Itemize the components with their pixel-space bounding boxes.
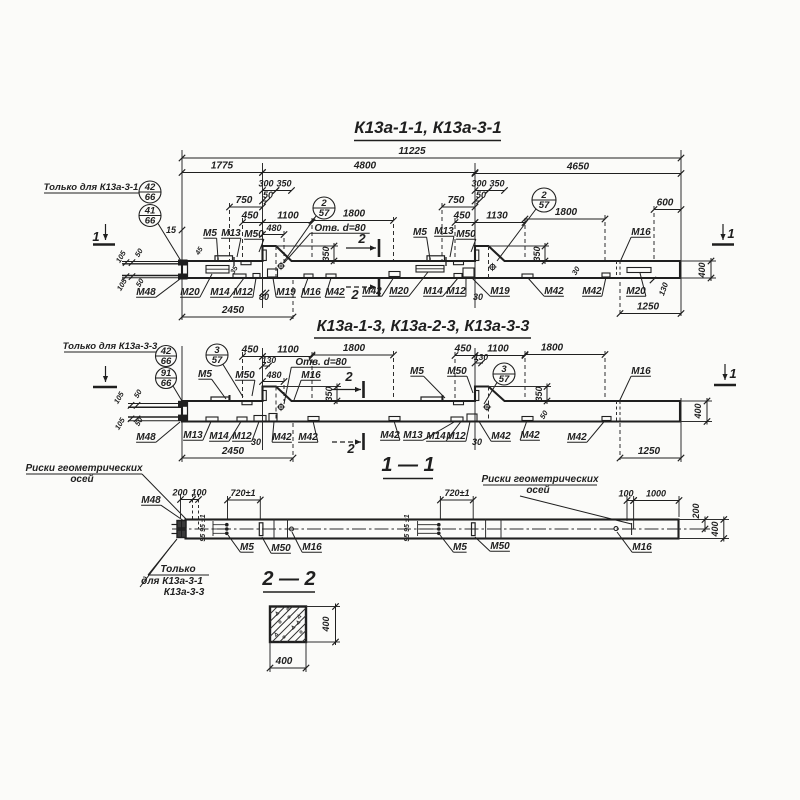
svg-text:Риски геометрических: Риски геометрических (481, 474, 598, 485)
svg-text:М42: М42 (544, 286, 564, 297)
bolt M16 dot group 1 section 1-1 (290, 527, 294, 531)
svg-text:3: 3 (214, 345, 220, 356)
svg-text:200: 200 (691, 503, 701, 519)
joint line no.1 group 1 section 1-1 (273, 520, 275, 539)
dimension 1775 (179, 161, 266, 176)
svg-text:480: 480 (265, 223, 281, 233)
extension line console 2 left edge top view (474, 163, 476, 308)
dimension 480 console 1 (259, 223, 287, 238)
anchor tick M13 console 2 top view (445, 257, 447, 266)
position bubble 3/57 console 2 middle view (493, 363, 515, 385)
extension line 1100 end console 1 (311, 218, 313, 261)
label M13 above console 2 (434, 226, 454, 257)
svg-text:1 — 1: 1 — 1 (381, 454, 434, 476)
svg-text:М16: М16 (302, 542, 322, 553)
hidden line M16 sleeve right edge middle view (619, 401, 621, 422)
vertical dimension 350 console 1 middle view (324, 383, 340, 404)
opening d80 console 2 middle view (483, 403, 491, 411)
extension for 30 below console 2 (474, 278, 476, 302)
embedded plate M20 no.3 (627, 268, 651, 273)
section title 2 - 2 (261, 568, 315, 592)
embedded plate M14 no.1 (233, 274, 246, 278)
dimension 1800 between consoles middle view (309, 343, 397, 358)
svg-text:30: 30 (473, 292, 483, 302)
svg-text:М42: М42 (491, 431, 511, 442)
svg-text:М42: М42 (272, 432, 292, 443)
extension 720 no.1 start (227, 496, 229, 520)
dimension 4800 (259, 161, 478, 176)
svg-text:130: 130 (474, 352, 488, 362)
extension right end middle view (680, 398, 682, 462)
label M19 below top view no.1 (273, 278, 296, 298)
label M50 above console 2 (456, 229, 476, 252)
svg-text:95 95 ±1: 95 95 ±1 (200, 514, 207, 541)
svg-text:М20: М20 (626, 286, 646, 297)
svg-text:осей: осей (526, 485, 549, 496)
embedded plate M16 no.1 (304, 274, 313, 278)
opening d80 in console 2 (488, 263, 496, 271)
vertical dimension 350 console 2 middle view (534, 383, 550, 404)
svg-text:300: 300 (471, 179, 486, 189)
svg-text:2: 2 (344, 369, 353, 384)
svg-text:М42: М42 (298, 432, 318, 443)
anchor rods M48 upper pair top view (122, 259, 182, 265)
embedded plate M12 no.1 (253, 274, 260, 278)
svg-text:2450: 2450 (221, 305, 245, 316)
label M48 section 1-1 (141, 495, 184, 521)
svg-text:2 — 2: 2 — 2 (261, 568, 315, 590)
embedded plate M42 no.4 (602, 273, 610, 277)
opening d80 console 1 middle view (277, 403, 285, 411)
column body section 1-1 (186, 520, 679, 539)
label M16 group 3 section 1-1 (617, 532, 652, 553)
embedded plate M42 console 1 middle view (269, 414, 277, 422)
svg-text:4800: 4800 (353, 161, 377, 172)
svg-text:М13: М13 (221, 228, 241, 239)
label M5 above console 1 (203, 228, 218, 259)
plate M19 on console 1 face (263, 250, 267, 261)
plate M12 on console 1 face middle view (263, 391, 267, 401)
dimension 300 console 1 (258, 179, 279, 194)
svg-text:1100: 1100 (277, 211, 299, 222)
svg-text:М13: М13 (403, 430, 423, 441)
extension from console 1 top to 350 dim (276, 245, 338, 247)
position bubble 2/57 console 2 (532, 188, 556, 212)
label M19 below top view no.2 (472, 278, 510, 297)
anchor rods M48 lower pair top view (122, 273, 182, 279)
position bubble 41/66 for K13a-3-1 (139, 205, 161, 227)
svg-text:200: 200 (171, 488, 187, 498)
anchor tick M5 console 1 middle view (229, 395, 231, 402)
svg-text:100: 100 (618, 489, 633, 499)
extension line 480 end console 1 (283, 231, 285, 261)
plate M50 under top edge console 2 middle view (454, 402, 464, 405)
extension top edge to 400 dim section 1-1 (679, 519, 730, 521)
svg-text:М42: М42 (582, 286, 602, 297)
svg-text:М16: М16 (301, 370, 321, 381)
svg-text:Только: Только (160, 564, 195, 575)
extension 1250 left end middle view (619, 423, 621, 460)
svg-text:57: 57 (539, 200, 550, 211)
extension bottom left corner section 2-2 (269, 642, 271, 672)
label M42 below top view no.3 (528, 278, 564, 297)
extension for 30 middle view console 1 (262, 422, 264, 450)
embedded plate M42 middle view no.2 (308, 417, 319, 421)
svg-text:М19: М19 (490, 286, 510, 297)
extension bottom right corner to 400 dim (680, 277, 716, 279)
hidden line M16 sleeve left edge middle view (616, 401, 618, 422)
anchor rods M48 lower pair middle view (128, 416, 182, 422)
extension 100 right end section 1-1 (633, 496, 635, 529)
svg-text:41: 41 (144, 205, 156, 216)
section mark 2 upper arrow top view (346, 231, 379, 257)
dimension 130 console 1 middle view (259, 355, 276, 369)
square cross-section 2-2 outline (270, 607, 306, 643)
svg-text:450: 450 (454, 344, 472, 355)
extension line right end of top view (680, 150, 682, 316)
embedded channel M20 no.2 (416, 266, 444, 273)
embedded plate M42 no.2 (389, 272, 400, 277)
left end plate line middle view (187, 401, 189, 422)
joint line no.1 group 2 section 1-1 (485, 520, 487, 539)
label M12 below middle view no.2 (446, 422, 470, 443)
label M14 below top view no.2 (423, 278, 458, 297)
extension 1100 end console 2 middle view (524, 351, 526, 401)
svg-text:400: 400 (710, 521, 720, 537)
svg-text:350: 350 (321, 246, 331, 261)
svg-text:1100: 1100 (277, 345, 299, 356)
label opening Otv d=80 console 1 (284, 223, 370, 263)
left end plate line top view (187, 261, 189, 278)
leader from bubble 3/57 console 1 to plate M50 (223, 365, 243, 398)
concrete hatching in section 2-2 (270, 607, 306, 643)
dimension 50 console 2 (472, 190, 486, 204)
hidden line console 2 corner middle view (488, 387, 490, 422)
svg-text:350: 350 (324, 386, 334, 401)
extension line left end of top view (181, 150, 183, 320)
label M50 group 2 section 1-1 (475, 537, 510, 552)
dimension 200 section 1-1 (171, 488, 195, 503)
svg-text:М14: М14 (209, 431, 229, 442)
hidden line M16 sleeve left edge top view (616, 261, 618, 278)
dimension 100 right section 1-1 (618, 489, 636, 504)
joint line no.2 group 1 section 1-1 (287, 520, 289, 539)
dimension 1100 console 1 (259, 211, 315, 226)
label M13 above console 1 (221, 228, 241, 257)
svg-text:М12: М12 (446, 286, 466, 297)
extension 2450 right end middle view (292, 423, 294, 462)
title of top elevation view K13a-1-1, K13a-3-1 (354, 118, 502, 141)
anchor plate M5 on top edge console 2 (427, 256, 445, 261)
svg-text:57: 57 (499, 374, 510, 385)
position bubble 91/66 middle view (156, 368, 177, 390)
vertical dimension 400 section 2-2 (321, 603, 339, 645)
svg-text:720±1: 720±1 (445, 488, 470, 498)
dimension 450 console 1 middle view (239, 345, 265, 360)
extension for 30 middle view console 2 (474, 422, 476, 448)
svg-text:480: 480 (265, 370, 281, 380)
label M48 below middle view (136, 422, 180, 443)
embedded plate M42 middle view no.4 (522, 417, 533, 421)
position bubble 3/57 console 1 middle view (206, 344, 228, 366)
section mark 1 right of middle view (714, 364, 737, 385)
extension line for 750 left tick console 1 (229, 203, 231, 261)
svg-text:80: 80 (259, 292, 269, 302)
vertical dimension 200 section 1-1 (691, 503, 708, 532)
extension line 600 start (653, 206, 655, 261)
label M12 below middle view no.1 (232, 422, 259, 443)
embedded plate M13 middle view no.2 (451, 417, 463, 421)
extension 100 right start section 1-1 (626, 496, 628, 521)
extension line 1800 right end (604, 215, 606, 261)
svg-text:15: 15 (166, 225, 177, 235)
extension 1100 end middle view (311, 352, 313, 401)
note riski geometricheskikh osei right (481, 474, 631, 524)
section mark 2 lower arrow top view (346, 278, 379, 302)
extension 720 no.2 end (472, 496, 474, 520)
dimension 1250 below top view right (617, 302, 684, 317)
embedded plate M42 no.1 (326, 274, 336, 278)
dimension 400 below section 2-2 (267, 656, 309, 671)
dimension 130 console 2 middle view (472, 352, 489, 366)
svg-text:450: 450 (453, 211, 471, 222)
tick for 15 mark (179, 227, 185, 233)
svg-text:М12: М12 (233, 287, 253, 298)
section mark 1 left of top view (92, 224, 115, 245)
dimension 1130 console 2 (472, 211, 528, 226)
section mark 1 right of top view (712, 224, 735, 245)
svg-text:М50: М50 (490, 541, 510, 552)
label M13 below middle view no.1 (183, 422, 211, 442)
note text Tolko dlya K13a-3-3 (63, 341, 158, 352)
svg-text:М13: М13 (183, 430, 203, 441)
anchor tick M5 console 2 top view (429, 258, 431, 262)
svg-text:95 95 ±1: 95 95 ±1 (404, 514, 411, 541)
dimension 100 section 1-1 (189, 488, 206, 503)
note tolko dlya K13a-3-1 K13a-3-3 bottom left (140, 539, 209, 598)
column elevation outline (top view) with two corbels (182, 246, 680, 278)
svg-text:Отв. d=80: Отв. d=80 (295, 357, 347, 368)
label M20 below top view no.2 (389, 272, 428, 297)
extension right bottom corner section 2-2 (306, 641, 340, 643)
svg-text:М20: М20 (180, 287, 200, 298)
extension console 2 left edge middle view (474, 348, 476, 450)
svg-text:350: 350 (532, 246, 542, 261)
embedded plate M42 no.3 (522, 274, 533, 278)
anchor plate M5 on top edge console 1 middle view (211, 397, 229, 401)
svg-text:М12: М12 (446, 431, 466, 442)
leader from bubble 3/57 console 2 to console slope (484, 383, 497, 405)
dimension 2450 below middle view (179, 446, 296, 461)
dimension 1000 right section 1-1 (630, 489, 682, 504)
vertical dimension 350 console 1 (321, 243, 337, 264)
anchor end plates at left face top view (178, 260, 188, 280)
label M14 below middle view no.2 (426, 422, 461, 443)
extension console 1 top to 350 dim middle view (276, 386, 341, 388)
dimension 1800 right console 2 middle view (522, 343, 608, 358)
svg-text:30: 30 (472, 437, 482, 447)
dimension 450 console 2 (452, 211, 478, 226)
aggregate dots in section 2-2 (275, 608, 302, 638)
svg-text:М48: М48 (136, 287, 156, 298)
hidden line console 1 corner top view (275, 246, 277, 278)
note text Tolko dlya K13a-3-1 (44, 182, 139, 193)
svg-text:66: 66 (161, 356, 172, 367)
label M16 right middle view (619, 366, 651, 402)
note riski geometricheskikh osei left (25, 463, 186, 519)
svg-text:300: 300 (258, 179, 273, 189)
extension top right corner to 400 dim (680, 260, 716, 262)
svg-text:М5: М5 (410, 366, 424, 377)
label M16 console 1 middle view (294, 370, 321, 400)
leader from bubble 2/57 console 2 to console slope (497, 209, 536, 261)
section title 1 - 1 (381, 454, 434, 479)
extension line 1100 end console 2 (524, 218, 526, 261)
hidden line console 2 corner top view (488, 246, 490, 278)
label M5 group 1 section 1-1 (228, 535, 254, 553)
svg-text:1800: 1800 (343, 343, 366, 354)
tick for 130 offset top view (650, 277, 656, 283)
svg-text:750: 750 (236, 195, 253, 206)
label M12 below top view no.2 (446, 278, 466, 297)
svg-text:Только для К13а-3-1: Только для К13а-3-1 (44, 182, 139, 193)
extension bottom edge to 400 dim section 1-1 (679, 538, 730, 540)
extension 200 start section 1-1 (180, 494, 182, 518)
vertical dimension 400 top view (697, 258, 714, 281)
svg-text:2: 2 (320, 198, 327, 209)
svg-text:для К13а-3-1: для К13а-3-1 (141, 576, 203, 587)
extension line 450 start console 1 (242, 218, 244, 261)
embedded plate M19 no.1 at console 1 (268, 269, 278, 277)
label M5 console 1 middle view (198, 369, 226, 399)
label M50 console 1 middle view (235, 370, 255, 396)
extension console 1 left edge middle view (262, 348, 264, 450)
embedded plate M14 no.2 (454, 274, 462, 278)
svg-text:66: 66 (145, 216, 156, 227)
svg-text:450: 450 (241, 211, 259, 222)
extension line console 1 left edge top view (262, 163, 264, 308)
svg-text:М16: М16 (631, 227, 651, 238)
position bubble 42/66 middle view (156, 346, 177, 368)
svg-text:М42: М42 (325, 287, 345, 298)
svg-text:М13: М13 (434, 226, 454, 237)
svg-text:3: 3 (501, 364, 507, 375)
extension top right corner to 400 dim middle view (680, 400, 712, 402)
extension centerline to 200 dim section 1-1 (692, 528, 710, 530)
anchor tick M5 console 1 top view (217, 258, 219, 262)
leader from bubble 41/66 to anchor rods (158, 224, 181, 262)
label M5 group 2 section 1-1 (440, 535, 467, 553)
label M12 below top view no.1 (233, 278, 256, 298)
svg-text:М42: М42 (567, 432, 587, 443)
label M48 below top view (136, 279, 180, 298)
svg-text:30: 30 (251, 437, 261, 447)
leader from bubble 2/57 console 1 to opening (283, 216, 316, 263)
svg-text:М50: М50 (271, 543, 291, 554)
svg-text:350: 350 (489, 179, 504, 189)
anchor rods M48 upper pair middle view (128, 402, 182, 408)
embedded channel M20 no.1 (206, 266, 229, 274)
plate M50 group 1 section 1-1 (259, 523, 263, 536)
svg-text:1130: 1130 (486, 211, 508, 222)
svg-text:720±1: 720±1 (231, 488, 256, 498)
svg-text:1: 1 (729, 366, 736, 381)
svg-text:2: 2 (346, 441, 355, 456)
vertical dimension line group 1 bolts (213, 521, 226, 536)
svg-text:1: 1 (727, 226, 734, 241)
svg-text:М50: М50 (456, 229, 476, 240)
svg-text:К13а-1-1, К13а-3-1: К13а-1-1, К13а-3-1 (354, 118, 502, 137)
svg-text:57: 57 (319, 208, 330, 219)
bolt M16 dot group 3 section 1-1 (614, 527, 618, 531)
plate M12 on console 2 face middle view (475, 391, 479, 401)
hidden line console 1 corner middle view (275, 387, 277, 422)
label M5 console 2 middle view (410, 366, 445, 398)
svg-text:11225: 11225 (398, 146, 426, 157)
svg-text:2: 2 (357, 231, 366, 246)
dimension 350 console 1 (273, 179, 295, 194)
extension 450 start middle view (242, 352, 244, 401)
extension 450 start console 2 middle view (454, 352, 456, 401)
svg-text:М48: М48 (141, 495, 161, 506)
label M42 below top view no.1 (325, 278, 345, 298)
svg-text:1: 1 (92, 229, 99, 244)
dimension 350 console 2 (485, 179, 507, 194)
svg-text:М42: М42 (362, 286, 382, 297)
svg-text:1800: 1800 (343, 209, 366, 220)
plate M50 under top edge console 2 (454, 262, 464, 265)
extension bottom right corner section 2-2 (305, 642, 307, 672)
label M42 below top view no.2 (362, 277, 394, 297)
svg-text:2: 2 (540, 190, 547, 201)
title of middle elevation view K13a-1-3, K13a-2-3, K13a-3-3 (314, 318, 531, 338)
dimension 1250 below middle view (617, 446, 684, 461)
svg-text:66: 66 (145, 192, 156, 203)
extension of opening to 80 dim (262, 278, 264, 296)
embedded plate M42 middle view no.3 (389, 417, 400, 421)
embedded plate M12 console 2 middle view (467, 414, 477, 421)
bolt dots M5 group 2 section 1-1 (437, 523, 441, 535)
label M50 above console 1 (244, 229, 264, 252)
label M20 below top view no.1 (180, 274, 212, 298)
svg-text:450: 450 (241, 345, 259, 356)
svg-text:М50: М50 (447, 366, 467, 377)
extension 1000 right end section 1-1 (678, 496, 680, 517)
dimension 1800 right of console 2 (522, 207, 608, 222)
svg-text:42: 42 (160, 346, 172, 357)
svg-text:400: 400 (697, 262, 707, 278)
extension 200 end section 1-1 (192, 494, 194, 520)
label M50 group 1 section 1-1 (262, 537, 291, 554)
extension 1800 end right middle view (604, 351, 606, 401)
anchor plate M5 on top edge console 1 (215, 256, 233, 261)
axis centerline section 1-1 (172, 528, 692, 530)
extension line 450 start console 2 (454, 218, 456, 261)
svg-text:М50: М50 (244, 229, 264, 240)
extension line 1800 end top view (393, 217, 395, 261)
svg-text:осей: осей (70, 474, 93, 485)
svg-text:М14: М14 (426, 431, 446, 442)
dimension 750 console 1 (226, 195, 265, 210)
joint line no.2 group 2 section 1-1 (500, 520, 502, 539)
extension from console 2 top to 350 dim (489, 245, 550, 247)
embedded plate M14 middle view no.1 (237, 417, 247, 421)
svg-text:1800: 1800 (541, 343, 564, 354)
svg-text:М5: М5 (453, 542, 467, 553)
svg-text:100: 100 (191, 488, 206, 498)
svg-text:1800: 1800 (555, 207, 578, 218)
anchor tick M13 console 1 top view (233, 257, 235, 266)
